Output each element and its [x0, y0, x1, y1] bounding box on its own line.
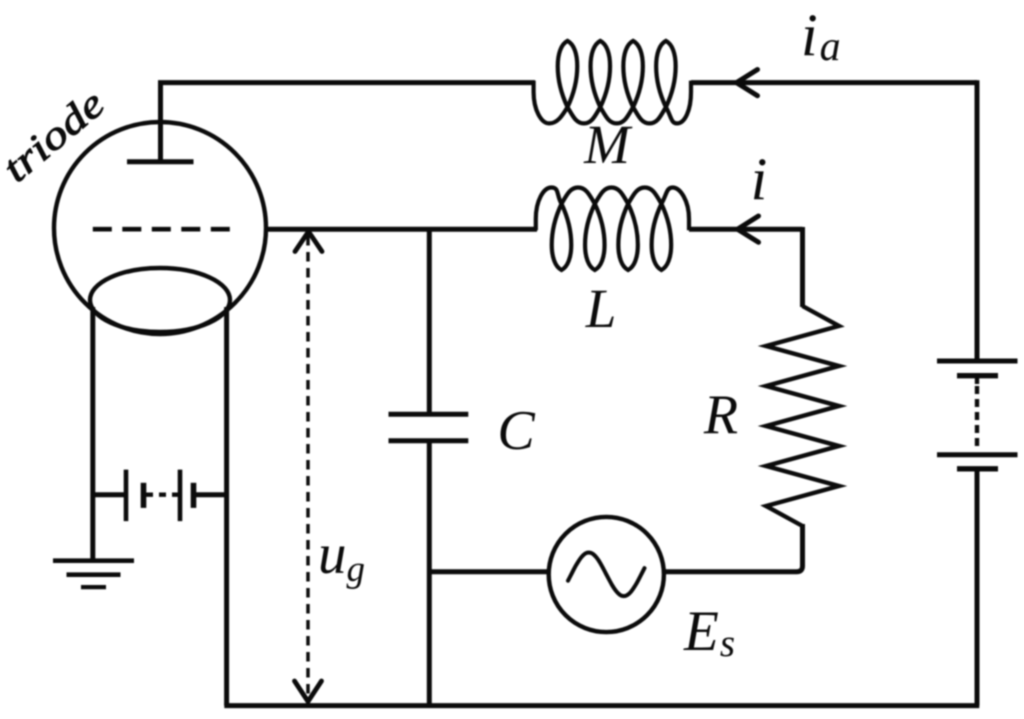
- wire: plate lead vertical + top rail to M: [161, 83, 536, 162]
- battery B1 (grid bias) wire left segment: [93, 492, 126, 497]
- AC source sine wave: [568, 553, 645, 597]
- voltage arrow u_g dashed line: [306, 236, 310, 698]
- battery B1 plates: [126, 470, 194, 521]
- wire: bottom rail: [224, 703, 979, 708]
- svg-text:C: C: [497, 400, 535, 462]
- AC source Es circle: [549, 517, 664, 632]
- wire: right rail bottom (battery B2 to bottom rail): [975, 469, 980, 706]
- svg-text:ia: ia: [801, 2, 841, 70]
- svg-text:i: i: [751, 146, 768, 212]
- capacitor C bottom plate: [389, 438, 469, 443]
- wire: left cathode lead down to ground: [90, 307, 95, 560]
- wire: capacitor to junction B to bottom rail: [427, 441, 432, 706]
- wire: right cathode lead down to bottom rail: [224, 307, 229, 706]
- wire: right rail top (down to battery B2): [975, 80, 980, 361]
- triode grid (dashed): [93, 227, 233, 232]
- wire: resistor top lead: [800, 227, 805, 307]
- wire: L to resistor R corner: [689, 227, 803, 232]
- svg-text:Es: Es: [683, 600, 735, 665]
- svg-text:ug: ug: [318, 523, 365, 590]
- current arrow i_a: [737, 70, 758, 96]
- triode cathode: [90, 268, 230, 332]
- svg-text:M: M: [583, 114, 633, 175]
- capacitor C top plate: [389, 412, 469, 417]
- wire: top rail from M to right corner: [691, 80, 977, 85]
- svg-text:L: L: [585, 278, 617, 339]
- triode envelope: [54, 122, 266, 334]
- resistor R: [766, 306, 839, 526]
- wire: grid to L and junction A: [266, 227, 537, 232]
- wire: junction A down to capacitor: [427, 227, 432, 414]
- inductor M: [534, 41, 691, 124]
- voltage arrow u_g bottom head: [295, 681, 322, 702]
- ground: [53, 561, 134, 587]
- voltage arrow u_g top head: [295, 232, 322, 252]
- wire: Es to junction B (capacitor branch): [429, 569, 549, 574]
- triode plate (anode) bar: [127, 159, 194, 164]
- wire: resistor bottom lead to Es: [664, 524, 803, 572]
- battery B1 wire right segment: [196, 492, 227, 497]
- battery B2 (anode supply): [937, 361, 1018, 469]
- current arrow i: [738, 216, 759, 242]
- svg-text:R: R: [703, 384, 738, 446]
- svg-text:triode: triode: [0, 80, 113, 190]
- inductor L: [536, 188, 689, 271]
